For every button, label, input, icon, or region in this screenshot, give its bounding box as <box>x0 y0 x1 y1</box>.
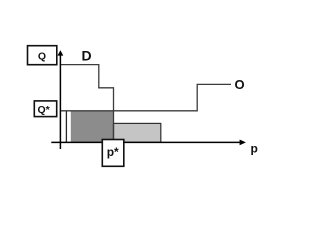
x-axis arrowhead <box>240 140 246 146</box>
svg-text:D: D <box>82 47 92 63</box>
Q* label box <box>34 101 56 117</box>
supply curve O (staircase) <box>60 84 231 110</box>
price marker line at first step <box>65 111 67 142</box>
light gray rectangle (seller surplus) <box>114 123 161 142</box>
svg-text:p*: p* <box>107 145 119 159</box>
y-axis <box>59 53 61 149</box>
y-axis arrowhead <box>58 50 64 55</box>
x-axis <box>51 141 243 143</box>
dark gray rectangle (buyer surplus) <box>71 111 114 142</box>
Q label box <box>28 46 57 65</box>
demand curve D (staircase) <box>60 65 113 143</box>
svg-text:p: p <box>251 141 258 155</box>
svg-text:Q: Q <box>38 50 46 62</box>
p* label box <box>102 140 124 167</box>
svg-text:Q*: Q* <box>38 104 51 116</box>
svg-text:O: O <box>235 77 245 92</box>
